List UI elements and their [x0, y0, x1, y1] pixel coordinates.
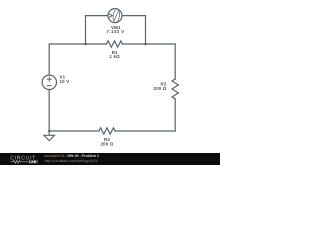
- source V1 circle: [42, 75, 56, 89]
- resistor R1: [107, 41, 123, 47]
- svg-text:200 Ω: 200 Ω: [100, 141, 113, 146]
- node junction B: [144, 43, 147, 46]
- svg-text:kassidyh134 / HW #8 - Problem: kassidyh134 / HW #8 - Problem 1: [45, 154, 100, 158]
- wire voltmeter right lead: [122, 16, 146, 44]
- resistor R3: [99, 128, 115, 134]
- voltmeter VM1 dial glyph: [110, 10, 120, 21]
- ground: [44, 131, 55, 141]
- svg-text:7.143 V: 7.143 V: [106, 29, 124, 34]
- node junction A: [84, 43, 87, 46]
- voltmeter VM1 circle: [108, 9, 122, 23]
- labels: [60, 25, 167, 146]
- footer bar: [0, 153, 220, 165]
- footer logo LAB box: [29, 160, 39, 163]
- svg-text:1 kΩ: 1 kΩ: [109, 54, 120, 59]
- source V1 plus minus: [47, 77, 52, 86]
- resistor R2: [172, 79, 178, 99]
- wire right vertical: [174, 44, 176, 131]
- svg-text:10 V: 10 V: [60, 79, 70, 84]
- wire top horizontal: [49, 43, 175, 45]
- svg-text:200 Ω: 200 Ω: [153, 86, 166, 91]
- svg-text:LAB: LAB: [29, 160, 36, 164]
- node junction ground: [48, 130, 51, 133]
- wire voltmeter left lead: [86, 16, 109, 44]
- wire bottom horizontal: [49, 130, 175, 132]
- wire left vertical: [48, 44, 50, 131]
- footer logo resistor glyph: [11, 160, 28, 163]
- svg-text:http://circuitlab.com/c/ph9ugx: http://circuitlab.com/c/ph9ugx2y7d: [45, 159, 98, 163]
